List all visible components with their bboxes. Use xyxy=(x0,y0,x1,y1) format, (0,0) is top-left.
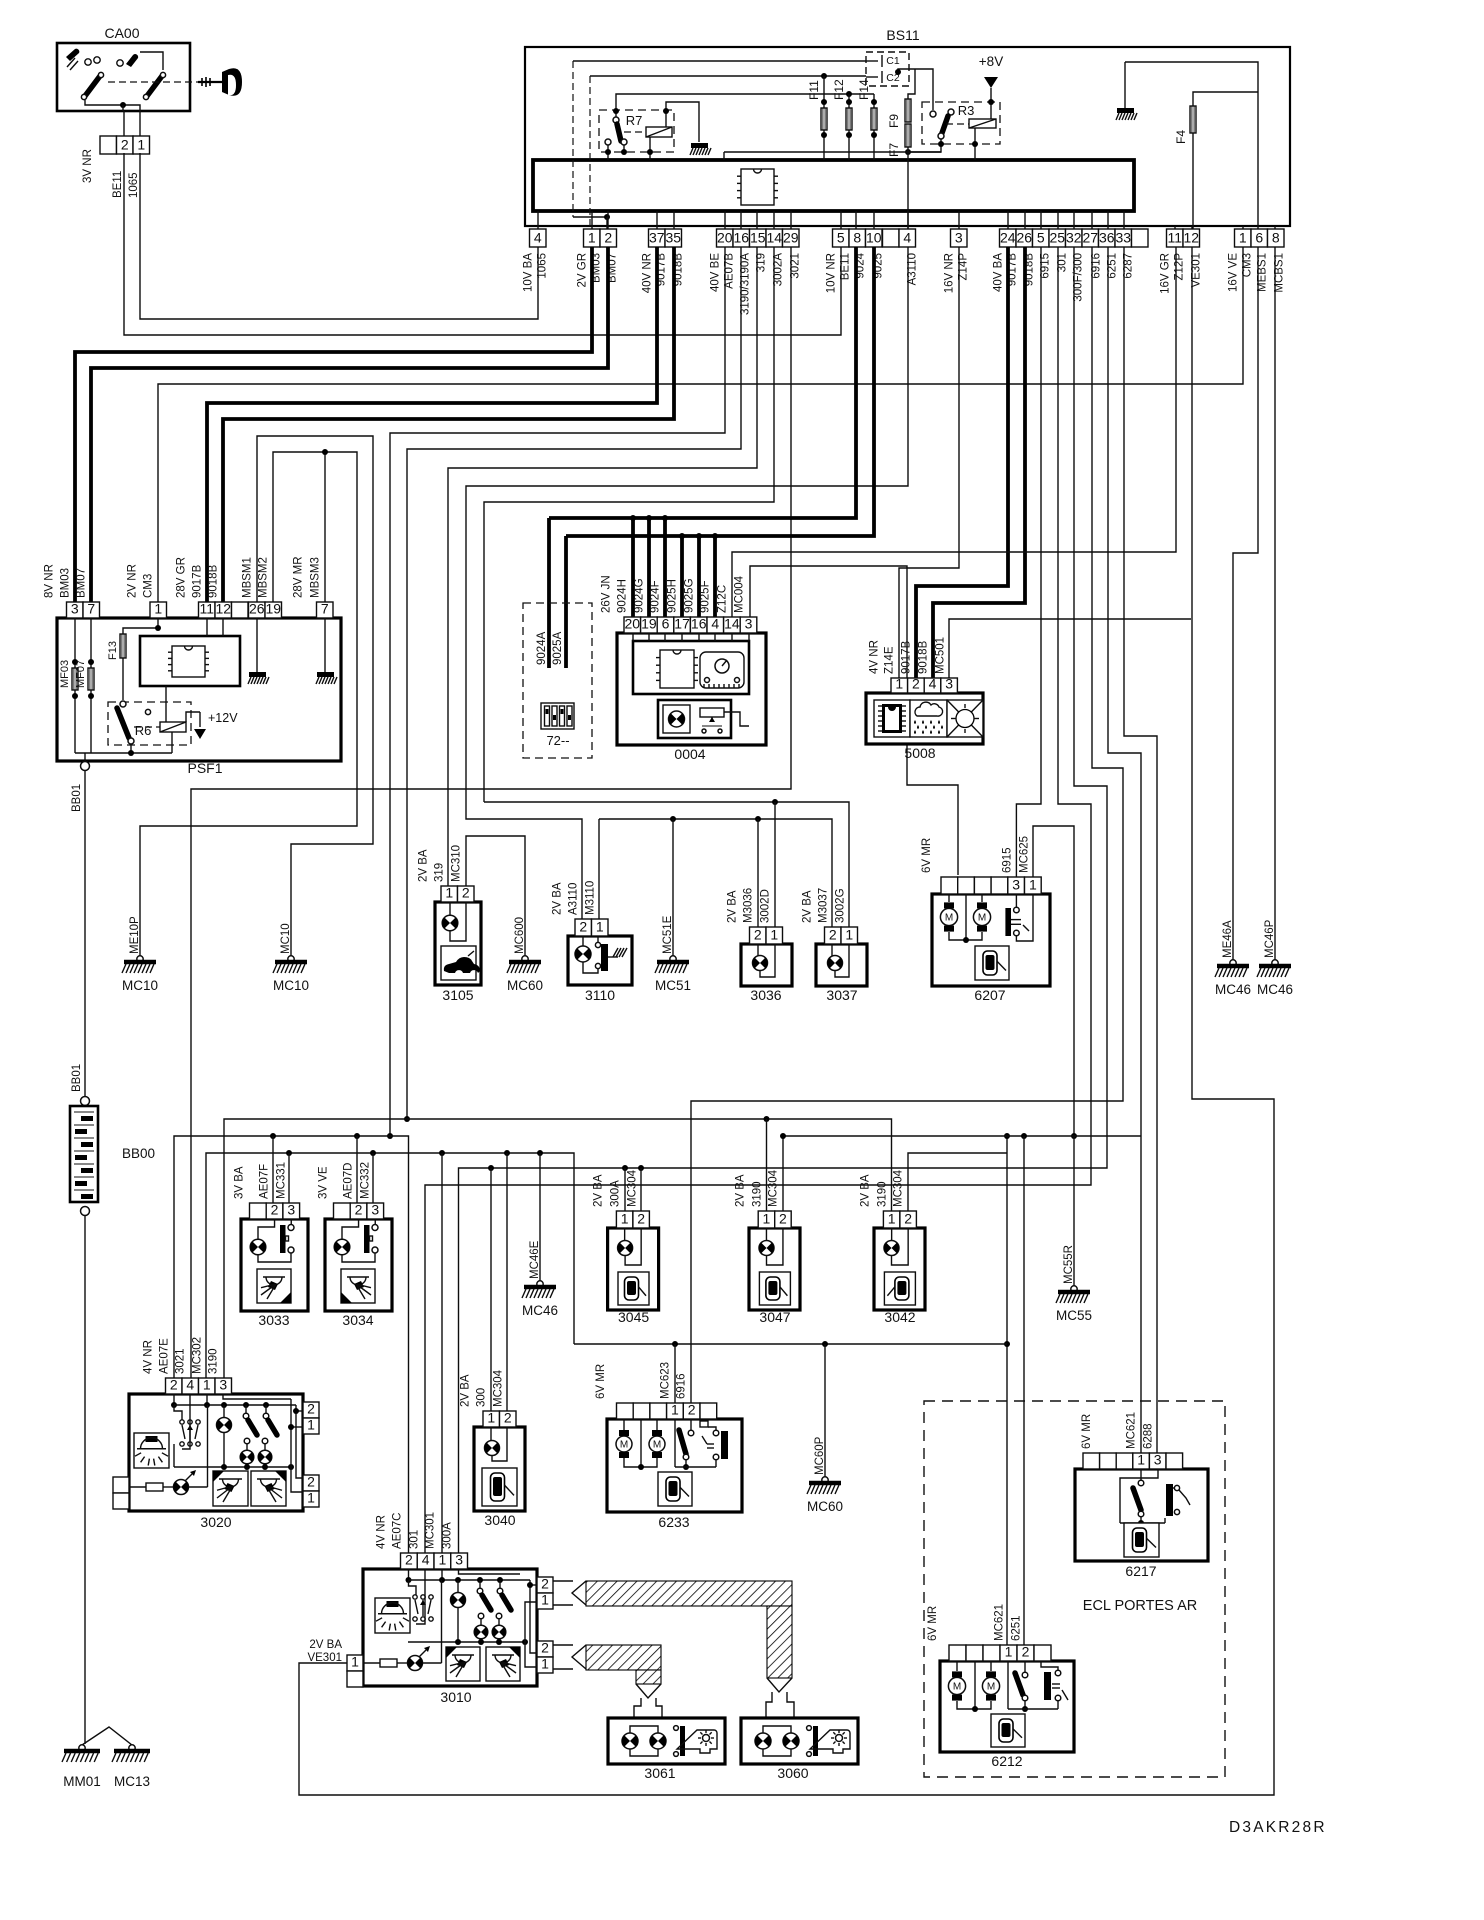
wire 9024 xyxy=(549,247,856,518)
svg-text:6212: 6212 xyxy=(991,1753,1022,1769)
svg-text:2V GR: 2V GR xyxy=(577,253,589,288)
svg-text:1: 1 xyxy=(1005,1644,1013,1660)
svg-text:3190: 3190 xyxy=(877,1181,889,1207)
instrument cluster 0004 xyxy=(617,633,766,745)
svg-text:7: 7 xyxy=(321,601,329,617)
svg-text:2: 2 xyxy=(829,927,837,943)
svg-text:MC304: MC304 xyxy=(627,1169,639,1207)
svg-text:2V BA: 2V BA xyxy=(727,890,739,923)
connector 72-- xyxy=(523,603,592,758)
wire Z12C xyxy=(732,247,1176,621)
svg-text:35: 35 xyxy=(665,230,681,246)
svg-text:1: 1 xyxy=(888,1211,896,1227)
svg-text:8: 8 xyxy=(1272,230,1280,246)
svg-text:M: M xyxy=(978,913,986,924)
door lamp 3045 xyxy=(608,1228,659,1310)
6212 switch xyxy=(1007,1661,1009,1709)
svg-text:2: 2 xyxy=(904,1211,912,1227)
fuse F7 xyxy=(905,124,911,147)
3020 internals xyxy=(134,1433,169,1468)
svg-text:3: 3 xyxy=(1154,1452,1162,1468)
3020 bottom lamp branch xyxy=(146,1483,163,1491)
svg-text:37: 37 xyxy=(649,230,665,246)
wire 9018B to 5008 xyxy=(933,247,1025,678)
0004 display unit xyxy=(633,641,749,694)
svg-text:F4: F4 xyxy=(1174,130,1188,144)
relay R7 xyxy=(599,110,674,152)
svg-text:2: 2 xyxy=(754,927,762,943)
wire 1065 xyxy=(140,153,538,319)
svg-text:3037: 3037 xyxy=(826,987,857,1003)
svg-text:7: 7 xyxy=(87,601,95,617)
svg-text:1: 1 xyxy=(671,1402,679,1418)
interior light 3034 xyxy=(325,1219,392,1311)
svg-text:MC10: MC10 xyxy=(122,978,158,993)
svg-text:9017B: 9017B xyxy=(192,564,204,598)
svg-text:R7: R7 xyxy=(626,113,643,128)
wire 300F/300 xyxy=(459,247,1108,1555)
3020 side pins right lower xyxy=(303,1475,319,1491)
svg-text:9017B: 9017B xyxy=(901,640,913,674)
svg-text:3010: 3010 xyxy=(440,1689,471,1705)
svg-text:MC623: MC623 xyxy=(660,1362,672,1399)
svg-text:2: 2 xyxy=(579,919,587,935)
svg-text:1: 1 xyxy=(487,1410,495,1426)
svg-text:MC46E: MC46E xyxy=(529,1240,541,1279)
0004 fan and lever unit xyxy=(658,700,731,738)
svg-text:MC301: MC301 xyxy=(425,1512,437,1549)
svg-text:M: M xyxy=(987,1682,995,1693)
ground MC60 mid xyxy=(522,956,528,962)
fuse MF07 xyxy=(88,668,94,690)
svg-text:2V BA: 2V BA xyxy=(802,890,814,923)
svg-text:1: 1 xyxy=(154,601,162,617)
svg-text:6915: 6915 xyxy=(1002,847,1014,873)
svg-text:CA00: CA00 xyxy=(104,25,139,41)
svg-text:MC600: MC600 xyxy=(514,917,526,954)
svg-text:3110: 3110 xyxy=(585,987,615,1003)
ignition switch CA00 xyxy=(57,43,190,111)
6233 car icon xyxy=(658,1472,692,1506)
ground MC13 xyxy=(129,1745,135,1751)
svg-text:MC10: MC10 xyxy=(280,923,292,954)
svg-text:BM07: BM07 xyxy=(76,568,88,598)
svg-text:4V NR: 4V NR xyxy=(376,1515,388,1549)
ground rail y1344 xyxy=(574,1343,1007,1345)
svg-text:3040: 3040 xyxy=(484,1512,515,1528)
svg-text:1: 1 xyxy=(763,1211,771,1227)
svg-text:1: 1 xyxy=(1137,1452,1145,1468)
ground MBSM1 internal xyxy=(256,618,258,672)
svg-text:1065: 1065 xyxy=(128,172,140,198)
connector C1 C2 xyxy=(866,52,909,86)
6207 motors xyxy=(940,908,957,925)
svg-text:3002G: 3002G xyxy=(835,888,847,923)
wire 9018B to PSF1 xyxy=(223,247,674,602)
svg-text:3033: 3033 xyxy=(258,1312,289,1328)
svg-text:AE07C: AE07C xyxy=(392,1513,404,1549)
ground MC51 xyxy=(670,956,676,962)
svg-text:3105: 3105 xyxy=(442,987,473,1003)
svg-text:1: 1 xyxy=(307,1490,315,1506)
svg-text:6V MR: 6V MR xyxy=(595,1364,607,1399)
svg-text:MF07: MF07 xyxy=(75,660,87,688)
svg-text:2: 2 xyxy=(541,1640,549,1656)
wire 6251 xyxy=(1108,247,1141,1453)
lock motor unit 6233 xyxy=(607,1419,742,1512)
BS11 connector pins xyxy=(530,229,547,247)
svg-text:MC304: MC304 xyxy=(768,1169,780,1207)
svg-text:4V NR: 4V NR xyxy=(143,1340,155,1374)
svg-text:28V MR: 28V MR xyxy=(293,556,305,598)
svg-text:4: 4 xyxy=(711,616,719,632)
wire BM03 xyxy=(75,247,592,602)
svg-text:MC60: MC60 xyxy=(807,1499,843,1514)
svg-text:26V JN: 26V JN xyxy=(601,575,613,613)
6207 switch xyxy=(1005,908,1011,936)
svg-text:F9: F9 xyxy=(887,114,901,128)
stubs 0004 xyxy=(633,633,749,641)
svg-text:3: 3 xyxy=(455,1552,463,1568)
svg-text:3042: 3042 xyxy=(884,1309,915,1325)
5008 chip icon xyxy=(874,700,910,737)
PSF1 pins xyxy=(67,602,84,618)
wire BB01 xyxy=(84,771,86,1097)
svg-text:1: 1 xyxy=(621,1211,629,1227)
svg-text:2V BA: 2V BA xyxy=(735,1174,747,1207)
svg-text:M: M xyxy=(653,1440,661,1451)
wire 9017B to PSF1 xyxy=(207,247,657,602)
fuse F9 xyxy=(905,99,911,122)
door lamp 3040 xyxy=(474,1427,525,1511)
svg-text:MC10: MC10 xyxy=(273,978,309,993)
svg-text:MC46P: MC46P xyxy=(1264,919,1276,958)
wire MEBS1 to ground xyxy=(1233,247,1258,960)
wire 9024G xyxy=(647,518,651,621)
svg-text:3V BA: 3V BA xyxy=(234,1166,246,1199)
wire MC55R xyxy=(1073,1136,1075,1287)
svg-text:9024H: 9024H xyxy=(617,579,629,613)
fuse F11 xyxy=(821,108,827,130)
PSF1 bottom bus xyxy=(75,752,172,754)
svg-text:2V NR: 2V NR xyxy=(127,564,139,598)
BS11 pin stubs xyxy=(538,211,1275,229)
svg-text:M3110: M3110 xyxy=(585,881,597,915)
wire BB01 lower xyxy=(84,1216,86,1744)
rain light sensor 5008 xyxy=(866,693,983,744)
wire 319 xyxy=(448,247,757,886)
svg-text:1: 1 xyxy=(203,1377,211,1393)
3105 car icon xyxy=(441,946,476,980)
boot light 3105 xyxy=(435,902,481,985)
control unit BS11 xyxy=(525,47,1290,226)
svg-text:3002D: 3002D xyxy=(760,889,772,923)
svg-text:1: 1 xyxy=(770,927,778,943)
svg-text:1: 1 xyxy=(351,1654,359,1670)
wire R7 contacts down xyxy=(607,145,609,160)
svg-text:M: M xyxy=(953,1682,961,1693)
wire MCBS1 to ground xyxy=(1274,247,1276,960)
svg-text:6207: 6207 xyxy=(974,987,1005,1003)
wire C2 feed xyxy=(590,75,866,77)
svg-text:72--: 72-- xyxy=(546,733,569,748)
svg-text:5: 5 xyxy=(1037,230,1045,246)
svg-text:BE11: BE11 xyxy=(112,171,124,198)
svg-text:ME10P: ME10P xyxy=(129,916,141,954)
svg-text:F13: F13 xyxy=(107,641,119,660)
svg-text:2: 2 xyxy=(405,1552,413,1568)
svg-text:15: 15 xyxy=(750,230,766,246)
svg-text:MBSM1: MBSM1 xyxy=(242,557,254,598)
ground MC46 P xyxy=(1272,960,1278,966)
svg-text:1: 1 xyxy=(588,230,596,246)
interior lamp unit 3010 xyxy=(363,1569,537,1686)
wire 9025H xyxy=(680,536,684,621)
svg-text:2: 2 xyxy=(462,885,470,901)
svg-text:40V NR: 40V NR xyxy=(642,253,654,293)
svg-text:6251: 6251 xyxy=(1011,1615,1023,1641)
svg-text:16: 16 xyxy=(733,230,749,246)
wire MC310 xyxy=(466,836,525,956)
licence plate light 3060 xyxy=(741,1718,858,1764)
svg-text:300A: 300A xyxy=(442,1522,454,1549)
svg-text:3: 3 xyxy=(955,230,963,246)
svg-text:10: 10 xyxy=(866,230,882,246)
svg-text:MC501: MC501 xyxy=(935,637,947,674)
svg-text:19: 19 xyxy=(265,601,281,617)
svg-text:2: 2 xyxy=(541,1576,549,1592)
wire MC623 xyxy=(672,1341,678,1347)
svg-text:3: 3 xyxy=(287,1202,295,1218)
svg-text:40V BE: 40V BE xyxy=(710,253,722,292)
svg-text:Z12C: Z12C xyxy=(717,585,729,613)
svg-text:9024G: 9024G xyxy=(634,578,646,613)
wire C-box to R3 xyxy=(898,69,933,110)
0004 pins xyxy=(624,617,641,633)
svg-text:2V BA: 2V BA xyxy=(460,1374,472,1407)
wire MBSM1 xyxy=(257,436,373,956)
svg-text:2V BA: 2V BA xyxy=(418,849,430,882)
svg-text:4V NR: 4V NR xyxy=(869,640,881,674)
wire AE07B xyxy=(390,247,725,1136)
svg-text:6233: 6233 xyxy=(658,1514,689,1530)
svg-text:6217: 6217 xyxy=(1125,1563,1156,1579)
svg-text:12: 12 xyxy=(215,601,231,617)
svg-text:VE301: VE301 xyxy=(307,1652,342,1664)
svg-text:3: 3 xyxy=(1012,877,1020,893)
svg-text:MM01: MM01 xyxy=(63,1774,101,1789)
svg-text:9025F: 9025F xyxy=(700,580,712,613)
wire MC004 xyxy=(750,566,958,875)
door lock unit 6207 xyxy=(932,894,1050,986)
lamp 3036 xyxy=(741,944,792,986)
wire R3 switch to F7 node xyxy=(908,139,941,152)
svg-text:MC60P: MC60P xyxy=(814,1436,826,1475)
svg-text:2V BA: 2V BA xyxy=(860,1174,872,1207)
svg-text:MC55: MC55 xyxy=(1056,1308,1092,1323)
svg-text:3190: 3190 xyxy=(208,1348,220,1374)
svg-text:0004: 0004 xyxy=(674,746,705,762)
svg-text:Z14E: Z14E xyxy=(884,646,896,674)
ground MC55 xyxy=(1071,1286,1077,1292)
3010 side pins right xyxy=(537,1577,553,1593)
svg-text:2: 2 xyxy=(307,1401,315,1417)
svg-text:8V NR: 8V NR xyxy=(44,564,56,598)
3010 internals xyxy=(375,1598,410,1633)
svg-text:4: 4 xyxy=(422,1552,430,1568)
svg-text:MC302: MC302 xyxy=(192,1337,204,1374)
door lamp 3047 xyxy=(749,1228,800,1310)
svg-text:3: 3 xyxy=(219,1377,227,1393)
wire 301 xyxy=(425,247,1091,1555)
6212 actuator xyxy=(1041,1661,1058,1670)
svg-text:20: 20 xyxy=(625,616,641,632)
svg-text:1: 1 xyxy=(137,137,145,153)
svg-text:29: 29 xyxy=(783,230,799,246)
svg-text:F12: F12 xyxy=(832,79,846,100)
harness to 3060 xyxy=(553,1581,573,1605)
3010 beam icons xyxy=(446,1647,480,1681)
svg-text:8: 8 xyxy=(853,230,861,246)
svg-text:4: 4 xyxy=(929,676,937,692)
svg-text:1: 1 xyxy=(541,1656,549,1672)
6233 switch xyxy=(674,1419,676,1467)
svg-text:MC13: MC13 xyxy=(114,1774,150,1789)
svg-text:9025G: 9025G xyxy=(684,578,696,613)
svg-text:25: 25 xyxy=(1049,230,1065,246)
ground MBSM3 internal xyxy=(324,618,326,672)
svg-text:2: 2 xyxy=(170,1377,178,1393)
lamp 3037 xyxy=(816,944,867,986)
svg-text:3: 3 xyxy=(945,676,953,692)
fuse F4 xyxy=(1190,106,1196,133)
ground MC10 second xyxy=(288,956,294,962)
lock motor unit 6212 xyxy=(940,1661,1074,1752)
wire MC625 ground link xyxy=(1033,826,1074,1136)
svg-text:1: 1 xyxy=(845,927,853,943)
svg-text:+12V: +12V xyxy=(208,711,238,725)
svg-text:5008: 5008 xyxy=(904,745,935,761)
wire 6915 xyxy=(1016,247,1041,877)
battery link BB00 xyxy=(81,1097,90,1106)
ground MC46 E xyxy=(537,1281,543,1287)
connector BB01 top xyxy=(81,762,90,771)
svg-text:4: 4 xyxy=(534,230,542,246)
svg-text:9018B: 9018B xyxy=(918,640,930,674)
svg-text:MF03: MF03 xyxy=(59,660,71,688)
svg-text:9018B: 9018B xyxy=(208,564,220,598)
svg-text:F11: F11 xyxy=(807,80,821,100)
svg-text:2: 2 xyxy=(307,1474,315,1490)
6207 car icon xyxy=(975,946,1009,980)
wire 9024F xyxy=(663,518,667,621)
svg-text:26: 26 xyxy=(1016,230,1032,246)
svg-text:2: 2 xyxy=(604,230,612,246)
svg-text:300: 300 xyxy=(476,1388,488,1407)
svg-text:3061: 3061 xyxy=(644,1765,675,1781)
wire Z14P xyxy=(899,247,959,678)
5008 sun icon xyxy=(947,700,983,737)
svg-text:MC004: MC004 xyxy=(734,575,746,613)
wire internal y152 xyxy=(724,151,941,153)
svg-text:301: 301 xyxy=(409,1530,421,1549)
svg-text:36: 36 xyxy=(1099,230,1115,246)
wire 9024A stub xyxy=(547,518,551,668)
svg-text:BM03: BM03 xyxy=(60,568,72,598)
svg-text:9024A: 9024A xyxy=(536,631,548,665)
wire 3190 from BS11 xyxy=(407,247,741,1119)
svg-text:3045: 3045 xyxy=(618,1309,649,1325)
svg-text:10V BA: 10V BA xyxy=(523,253,535,292)
wire MEBS1 internal xyxy=(1125,62,1258,229)
svg-text:6: 6 xyxy=(662,616,670,632)
svg-text:6V MR: 6V MR xyxy=(927,1606,939,1641)
svg-text:11: 11 xyxy=(1167,230,1182,246)
svg-text:12: 12 xyxy=(1183,230,1199,246)
svg-text:1: 1 xyxy=(1239,230,1247,246)
wire MC621 xyxy=(1006,1136,1008,1645)
svg-text:R3: R3 xyxy=(958,103,975,118)
BS11 inner unit box xyxy=(533,160,1134,211)
svg-text:2: 2 xyxy=(271,1202,279,1218)
svg-text:32: 32 xyxy=(1066,230,1082,246)
svg-text:PSF1: PSF1 xyxy=(187,760,222,776)
wire 9025G xyxy=(697,536,701,621)
svg-text:4: 4 xyxy=(186,1377,194,1393)
svg-text:4: 4 xyxy=(903,230,911,246)
svg-text:6916: 6916 xyxy=(676,1373,688,1399)
svg-text:AE07D: AE07D xyxy=(343,1163,355,1199)
svg-text:M3037: M3037 xyxy=(818,888,830,923)
svg-text:1: 1 xyxy=(541,1592,549,1608)
svg-text:+8V: +8V xyxy=(979,54,1003,69)
svg-text:C1: C1 xyxy=(886,55,900,67)
wire 9024H xyxy=(631,518,635,621)
svg-text:3: 3 xyxy=(745,616,753,632)
svg-text:2V BA: 2V BA xyxy=(552,882,564,915)
wire MC60P link xyxy=(822,1341,828,1347)
svg-text:9024F: 9024F xyxy=(650,580,662,613)
interior light 3033 xyxy=(241,1219,308,1311)
svg-text:D3AKR28R: D3AKR28R xyxy=(1229,1819,1327,1836)
svg-text:BB01: BB01 xyxy=(71,1064,83,1092)
ground MC10 left xyxy=(137,956,143,962)
wire CM3 xyxy=(158,247,1243,602)
svg-text:40V BA: 40V BA xyxy=(993,253,1005,292)
svg-text:1: 1 xyxy=(307,1417,315,1433)
svg-text:3: 3 xyxy=(371,1202,379,1218)
bus MC304 ground right xyxy=(783,1136,1141,1211)
wire A3110 xyxy=(466,247,908,919)
harness to 3061 xyxy=(553,1645,573,1669)
svg-text:11: 11 xyxy=(199,601,214,617)
svg-text:MC304: MC304 xyxy=(893,1169,905,1207)
svg-text:MC51E: MC51E xyxy=(662,915,674,954)
wire 3021 xyxy=(191,247,791,1379)
PSF1 controller box xyxy=(140,636,240,686)
bus 300 xyxy=(490,1168,492,1411)
wire node to pin 4 A3110 xyxy=(907,147,909,152)
ground inside BS11 right xyxy=(1124,62,1126,108)
fuse F12 xyxy=(846,108,852,130)
fuse MF03 xyxy=(72,668,78,690)
6233 actuator xyxy=(700,1421,708,1427)
svg-text:16: 16 xyxy=(691,616,707,632)
svg-text:2: 2 xyxy=(121,137,129,153)
ground inside BS11 at R7 xyxy=(691,143,708,148)
6212 car icon xyxy=(991,1714,1025,1747)
svg-text:24: 24 xyxy=(1000,230,1016,246)
